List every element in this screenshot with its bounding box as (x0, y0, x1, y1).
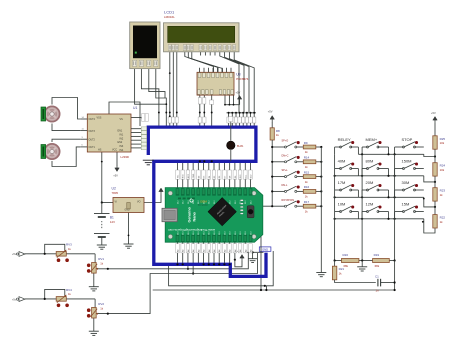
wire nano AREF-GND to blue bus start (245, 251, 263, 253)
svg-text:D12: D12 (177, 200, 179, 203)
svg-text:IN4: IN4 (120, 149, 124, 152)
svg-text:150M: 150M (402, 159, 412, 164)
svg-text:17M: 17M (338, 180, 346, 185)
svg-text:EN2: EN2 (118, 141, 123, 144)
svg-text:LCD1: LCD1 (164, 10, 175, 15)
wire U2 VO to +5V arrow (144, 195, 161, 203)
svg-text:VSS: VSS (97, 117, 102, 120)
svg-text:GND: GND (125, 210, 130, 212)
svg-text:OUT2: OUT2 (89, 138, 96, 141)
wire display module pin4 (156, 67, 167, 127)
wire motor M1 top to U1 OUT4 (52, 98, 80, 120)
wire U1 VCC pin to +5V arrow (116, 152, 118, 166)
wire motor M2 top to U1 OUT2 (52, 139, 80, 142)
svg-text:Genuino: Genuino (187, 206, 191, 222)
resistor R22 (433, 215, 437, 228)
svg-text:VI: VI (115, 201, 118, 204)
svg-text:68k: 68k (344, 264, 349, 268)
svg-text:R20: R20 (343, 253, 349, 257)
junction dots on blue bus (199, 160, 201, 162)
resistor R25 (433, 136, 437, 149)
svg-text:IN2: IN2 (120, 137, 124, 140)
svg-text:+5V: +5V (268, 110, 273, 114)
wire switch bank bus (271, 140, 273, 206)
wire R8 top (271, 122, 273, 128)
junction U1 gnd label dot (101, 161, 103, 163)
svg-text:RV3: RV3 (66, 243, 72, 247)
svg-text:EN1: EN1 (118, 130, 123, 133)
nano top pin pads (176, 188, 180, 195)
U1 right net label boxes (141, 127, 146, 131)
wire U1 VS top loop (109, 102, 140, 126)
wire matrix row 3 segments (335, 189, 341, 191)
svg-text:10M: 10M (338, 202, 346, 207)
svg-text:R25: R25 (440, 137, 446, 141)
motor M1 (44, 106, 59, 121)
svg-text:R16: R16 (304, 185, 310, 189)
wire RV1 wiper bus to nano (97, 253, 248, 269)
junction LCD vss (169, 72, 171, 74)
wire U3 INT stub (211, 95, 213, 127)
junction battery node (101, 201, 103, 203)
svg-text:OEM: OEM (200, 200, 207, 204)
node row above nano: stubs with labels (227, 112, 257, 114)
button keypad 10M (340, 211, 342, 213)
svg-text:D12: D12 (188, 200, 190, 203)
wire LCD D6 to nano (229, 52, 249, 112)
svg-text:D12: D12 (250, 200, 252, 203)
svg-text:L293D: L293D (121, 155, 130, 159)
button keypad STOP (403, 146, 405, 148)
wire U3 top pad stubs (199, 68, 201, 73)
wire R21 bottom to cap line (335, 280, 376, 283)
nano bottom net label boxes (176, 244, 180, 253)
svg-text:68k: 68k (375, 264, 380, 268)
svg-text:OUT4: OUT4 (89, 118, 96, 121)
button keypad 80M (367, 168, 369, 170)
svg-text:12M: 12M (366, 202, 374, 207)
button keypad 30M (403, 189, 405, 191)
ground mid RC (361, 261, 363, 267)
button keypad 40M (340, 168, 342, 170)
resistor R8 (270, 128, 274, 140)
svg-text:D10: D10 (219, 231, 221, 234)
resistor R24 (433, 163, 437, 176)
svg-text:D10: D10 (240, 231, 242, 234)
wire U1 GND pin down to battery node (101, 152, 103, 203)
wire RV2 wiper bus to nano (97, 253, 258, 314)
wire RV4 wiper loop (45, 289, 65, 299)
wire bank row 4 (272, 190, 284, 192)
svg-text:U1: U1 (133, 106, 137, 110)
wire RV4 row (25, 298, 95, 300)
motor M2 (44, 144, 59, 159)
nano bottom pin pads (176, 235, 180, 242)
net label GND (259, 247, 271, 251)
svg-text:R17: R17 (304, 200, 310, 204)
power arrow +5V below U1 (116, 165, 118, 169)
wire LCD VEE down (176, 52, 178, 127)
svg-text:D10: D10 (235, 231, 237, 234)
svg-text:VS: VS (120, 118, 124, 121)
wire RV3 to RV1 (94, 254, 96, 263)
wire bank row 5 (261, 205, 285, 207)
resistor R15 (303, 175, 316, 179)
left input terminal arrow RV3 (19, 252, 25, 257)
svg-text:IN1: IN1 (120, 134, 124, 137)
power arrow +5V near U3 (239, 98, 241, 102)
wire RV3 wiper loop (45, 244, 65, 254)
wire LCD VSS down (169, 52, 171, 127)
wire B1 minus to ground (101, 237, 103, 245)
svg-text:D10: D10 (250, 231, 252, 234)
svg-text:R15: R15 (304, 170, 310, 174)
wire battery node to U2 VI (102, 202, 113, 204)
wire bank right bus (320, 147, 322, 273)
green pixel on display module (135, 52, 137, 54)
wire RV1 bottom to ground (93, 273, 95, 287)
svg-text:SP+O: SP+O (282, 140, 289, 143)
svg-text:R24: R24 (440, 164, 446, 168)
vertical wires nano top pins to blue bus (177, 161, 179, 187)
power arrow +5V right of U2 (160, 191, 162, 195)
wire display module pin2 (141, 67, 159, 127)
svg-text:10k: 10k (440, 141, 445, 145)
wire RV2 bottom to ground (93, 318, 95, 331)
nano top net label boxes (176, 170, 180, 179)
svg-text:D12: D12 (209, 200, 211, 203)
svg-text:R14: R14 (304, 156, 310, 160)
button SW1 SP+O (285, 146, 287, 148)
resistor R16 (303, 190, 316, 194)
svg-text:80M: 80M (366, 159, 374, 164)
junction LCD vss area (169, 115, 171, 117)
ground below U2 (124, 244, 134, 248)
resistor R21 (334, 261, 336, 267)
svg-text:40M: 40M (338, 159, 346, 164)
wire B1 plus (101, 203, 103, 214)
svg-text:RV2: RV2 (98, 302, 104, 306)
wire bank row 3 (272, 176, 284, 178)
bottom bus wire long (153, 289, 395, 291)
bottom bus wire short (169, 251, 274, 286)
U3 bottom pin marks (198, 90, 201, 94)
svg-text:D12: D12 (214, 200, 216, 203)
buzzer on blue bus (230, 123, 232, 141)
resistor R20 (342, 259, 359, 263)
net label boxes near U1 right (142, 114, 145, 121)
wire LCD D4 to nano (220, 52, 239, 112)
U1 right pin stubs (131, 128, 141, 130)
svg-text:OUT3: OUT3 (89, 130, 96, 133)
wire col3 bus down (394, 261, 396, 291)
svg-text:C1: C1 (375, 274, 379, 278)
wire motor M2 bottom to U1 OUT1 (52, 147, 80, 167)
wire matrix row 3 lower line (335, 196, 424, 198)
ground at blue bus end (143, 160, 154, 165)
svg-text:15M: 15M (402, 202, 410, 207)
wire C1 right (381, 282, 395, 284)
svg-text:D12: D12 (245, 200, 247, 203)
wire display module pin3 (149, 67, 165, 98)
svg-text:30M: 30M (402, 180, 410, 185)
button keypad 17M (340, 189, 342, 191)
wire U2 GND down (128, 213, 130, 245)
svg-text:STOP: STOP (402, 137, 413, 142)
ground below B1 (97, 245, 107, 249)
wire LCD RW diagonal to U3 (188, 52, 218, 72)
wire matrix row 1 segments (335, 146, 341, 148)
svg-text:R23: R23 (440, 189, 446, 193)
display module pin labels (133, 60, 137, 66)
U3 top pin pads (198, 73, 201, 78)
wire U3 A0 A1 A2 to +5V (224, 95, 226, 105)
wires nano bottom pins (177, 242, 179, 264)
svg-text:OUT1: OUT1 (89, 146, 96, 149)
svg-text:1n: 1n (376, 288, 380, 292)
wire U1 VSS stub (131, 117, 141, 119)
LCD1 display LM016L (164, 23, 240, 52)
motor M1 connector (41, 107, 46, 121)
svg-text:U2: U2 (112, 187, 116, 191)
nano mounting holes (168, 191, 172, 195)
svg-text:R8: R8 (276, 129, 280, 133)
wire U3 SDA down to nano (199, 95, 201, 127)
button SW2 DN+C (285, 161, 287, 163)
junction module wires (165, 103, 167, 105)
power arrow +5V above ladder (434, 119, 436, 123)
capacitor C1 (377, 279, 379, 287)
svg-text:www.TheEngineeringProjects.com: www.TheEngineeringProjects.com (167, 228, 215, 232)
svg-text:R19: R19 (374, 253, 380, 257)
wire LCD RS diagonal to U3 (185, 52, 214, 72)
svg-text:IN3: IN3 (120, 145, 124, 148)
svg-text:R9: R9 (304, 141, 308, 145)
wire motor M1 bottom to U1 OUT3 (52, 124, 80, 131)
svg-text:D10: D10 (230, 231, 232, 234)
wire RV4 to RV2 (94, 299, 96, 308)
svg-text:D10: D10 (224, 231, 226, 234)
wire LCD VDD down (172, 52, 174, 127)
wire matrix row 4 lower line (335, 218, 424, 220)
svg-text:+5V: +5V (113, 174, 118, 178)
ground below bank bus (316, 273, 326, 277)
svg-text:B1: B1 (110, 216, 114, 220)
svg-text:VCC: VCC (112, 149, 117, 152)
power arrow +5V nano bottom (241, 257, 243, 261)
ground nano bottom (252, 252, 254, 258)
nano chip ATMEGA328P (208, 198, 237, 226)
svg-text:D12: D12 (183, 200, 185, 203)
wire bank row5 down to bottom bus (260, 206, 262, 290)
svg-text:7805: 7805 (112, 191, 119, 195)
wire matrix row 2 lower line (335, 175, 424, 177)
svg-text:R21: R21 (339, 267, 345, 271)
svg-text:R22: R22 (440, 216, 446, 220)
ground below RV1 (89, 287, 99, 291)
svg-text:RV4: RV4 (66, 288, 72, 292)
nano small parts (240, 200, 243, 202)
LCD1 pin labels (168, 45, 171, 51)
wire LCD D0-D3 stubs (200, 52, 202, 56)
svg-text:10k: 10k (440, 168, 445, 172)
svg-text:DN-L: DN-L (282, 184, 288, 187)
wire R20 R19 row (335, 260, 342, 262)
wire matrix row 2 segments (335, 168, 341, 170)
resistor R23 (433, 188, 437, 201)
svg-text:ROTATION: ROTATION (282, 199, 295, 202)
Arduino board Genuino Nano (165, 188, 263, 243)
motor M2 connector (41, 145, 46, 159)
button keypad 12M (367, 211, 369, 213)
button keypad 15M (403, 211, 405, 213)
svg-text:MEM+: MEM+ (366, 137, 378, 142)
svg-text:SP+L: SP+L (282, 169, 289, 172)
svg-text:D10: D10 (245, 231, 247, 234)
svg-text:12V: 12V (110, 220, 115, 224)
button SW5 ROTATION (285, 205, 287, 207)
op IC U3 PCF8574 (197, 72, 234, 95)
svg-text:Nano: Nano (192, 211, 196, 221)
svg-text:U3: U3 (236, 72, 240, 76)
button keypad 20M (367, 189, 369, 191)
svg-text:D12: D12 (230, 200, 232, 203)
power arrow +5V above R8 (271, 118, 273, 122)
svg-text:D12: D12 (235, 200, 237, 203)
wire LCD E diagonal to U3 (192, 52, 223, 72)
button keypad MEM+ (367, 146, 369, 148)
svg-text:DN+C: DN+C (282, 154, 289, 157)
motor driver U1 L293D (87, 114, 131, 152)
wire LCD D7 to nano (234, 52, 254, 112)
svg-text:HS: HS (98, 149, 102, 152)
wire display module pin1 (135, 67, 167, 104)
svg-text:LM016L: LM016L (164, 15, 175, 19)
wire thick blue ground bus (148, 127, 266, 276)
svg-text:PCF8574: PCF8574 (236, 77, 249, 81)
svg-text:RV1: RV1 (98, 257, 104, 261)
ground below RV2 (89, 331, 99, 335)
svg-text:GND: GND (193, 173, 195, 178)
svg-text:20M: 20M (366, 180, 374, 185)
wire U3 SCL down to nano (203, 95, 205, 127)
wire matrix row 1 lower line (358, 153, 423, 155)
button SW3 SP+L (285, 176, 287, 178)
wire bank row 2 (272, 161, 284, 163)
nano reset button (247, 206, 254, 218)
svg-text:best product: best product (198, 203, 208, 206)
wire bank row 1 (272, 146, 284, 148)
resistor R19 (373, 259, 390, 263)
svg-text:+5V: +5V (431, 111, 436, 115)
wire ladder top (434, 123, 436, 136)
svg-text:VO: VO (137, 201, 141, 204)
resistor R14 (303, 160, 316, 164)
wire RV3 row (25, 253, 95, 255)
junction U2 gnd wire (128, 235, 130, 237)
svg-text:BUZ1: BUZ1 (237, 145, 244, 148)
svg-text:+5V: +5V (236, 91, 241, 95)
wire matrix row 4 segments (335, 211, 341, 213)
resistor R17 (303, 204, 316, 208)
left input terminal arrow RV4 (19, 297, 25, 302)
display module LCD2 (black screen) (130, 22, 160, 69)
svg-text:RELEY: RELEY (338, 137, 351, 142)
wire matrix taps to ladder (424, 154, 435, 156)
button SW4 DN-L (285, 190, 287, 192)
wire LCD D5 to nano (225, 52, 244, 112)
resistor R9 (303, 145, 316, 149)
U1 left pins (80, 118, 87, 120)
nano USB connector (162, 208, 177, 221)
button keypad RELEY (340, 146, 342, 148)
button keypad 150M (403, 168, 405, 170)
svg-text:GND: GND (262, 248, 268, 252)
wire matrix column buses (334, 154, 336, 260)
